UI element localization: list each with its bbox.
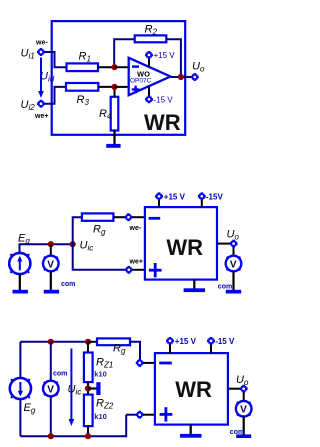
svg-text:WR: WR [166,235,203,260]
arrow U_ic (bottom) [69,349,75,427]
pin -15 V (bottom) [210,344,212,353]
pin +15 V (bottom) [169,344,171,353]
ground divider (rotated) [96,382,100,395]
terminal -15 V (middle) [198,192,206,200]
wire U_i1 to R1 [45,52,67,67]
wire R2 right to output node [166,39,181,77]
pin we+ to box (bottom) [143,414,155,416]
voltmeter V1 (bottom) [43,381,59,397]
node voltmeter tap (middle) [48,241,54,247]
svg-text:k10: k10 [94,370,107,379]
svg-text:we-: we- [129,225,142,232]
terminal U_o (top diagram) [191,73,199,81]
ground voltmeter (middle right) [226,290,241,294]
terminal we+ (bottom) [136,411,144,419]
terminal we+ (middle) [125,266,133,274]
pin R_Z2 bottom [87,426,89,436]
svg-text:OP07C: OP07C [130,77,152,84]
ground E_g (middle) [13,290,28,294]
box plus mark (bottom) [160,407,173,421]
source E_g (middle) [9,253,30,276]
pin R_Z1 top [87,342,89,353]
pin voltmeter top (bottom) [50,342,52,381]
svg-text:-15 V: -15 V [154,96,174,105]
op-amp plus mark [132,86,140,94]
terminal -15 V (bottom) [207,337,215,345]
node output [178,74,184,80]
svg-text:com: com [53,371,67,378]
wire op-amp output to U_o [170,76,191,78]
source E_g arrow up [17,256,22,270]
terminal U_o (middle) [230,240,238,248]
pin we- to box (middle) [132,216,145,218]
pin R_g left (bottom) [88,341,97,343]
wire E_g top rail [20,244,73,252]
op-amp U1 OP07C [129,58,171,95]
pin voltmeter bottom (bottom right) [243,417,245,436]
node U_ic (middle) [70,241,76,247]
wire U_i2 to R3 [45,87,66,104]
resistor R1 [67,63,99,71]
pin we- to box (bottom) [143,362,155,364]
wire R_g to we- terminal (bottom) [130,342,140,360]
source E_g (bottom) [10,378,31,401]
svg-text:+15 V: +15 V [164,193,186,202]
svg-text:+15 V: +15 V [175,337,197,346]
svg-text:com: com [61,281,75,288]
node divider mid [85,385,91,391]
svg-text:k10: k10 [94,412,107,421]
voltmeter V2 (middle right) [226,256,242,272]
pin -15 V (middle) [201,200,203,208]
pin +15 V (middle) [158,200,160,208]
box plus mark (middle) [149,263,162,277]
pin voltmeter bottom (middle right) [232,272,234,291]
terminal -15 V (top diagram) [145,95,153,103]
resistor R2 [135,35,167,42]
pin U_o (bottom) [228,388,241,390]
wire U_ic node down to we+ [73,244,125,270]
resistor R_g (bottom) [97,338,130,345]
node voltmeter bottom (bottom) [48,433,54,439]
pin R1 right to node A [98,66,115,68]
pin U_o (middle) [217,243,230,245]
resistor R_Z1 [84,353,93,383]
svg-text:we+: we+ [34,113,48,120]
amplifier box WR (bottom) [155,353,228,425]
box minus mark (middle) [149,217,161,220]
node A (inverting) [111,64,117,70]
resistor R4 [111,97,119,131]
wire top rail (bottom diagram) [20,341,88,343]
pin E_g bottom [19,275,21,291]
svg-text:-15V: -15V [206,193,224,202]
svg-text:we-: we- [35,40,48,47]
wire to we+ terminal (bottom) [126,414,136,416]
ground voltmeter (middle left) [44,290,59,294]
op-amp minus mark [132,65,139,67]
voltmeter V2 (bottom right) [236,401,252,417]
terminal we+ (U_i2 input) [37,100,45,108]
wire feedback R2 loop [114,39,135,67]
pin R3 right to node B [98,86,114,88]
pin R_Z1 bottom [87,382,89,395]
terminal +15 V (bottom) [166,337,174,345]
node voltmeter top (bottom) [48,339,54,345]
pin R4 bottom to ground [113,131,115,145]
ground box WR (middle) [193,280,195,289]
svg-text:+15 V: +15 V [154,51,176,60]
svg-text:-15 V: -15 V [215,337,235,346]
wire bottom rail (bottom diagram) [20,415,126,437]
pin divider mid to ground [88,387,97,389]
ground voltmeter (bottom right) [236,434,251,438]
svg-text:WR: WR [144,110,181,135]
terminal +15 V (middle) [155,192,163,200]
voltmeter V1 (middle left) [43,256,59,272]
pin op-amp non-inverting input [115,86,129,88]
arrow U_id [38,58,44,99]
svg-text:com: com [230,429,244,436]
wire left rail (bottom diagram) [19,342,21,378]
pin U_o to voltmeter (bottom) [243,392,245,401]
wire U_ic node up to R_g [73,217,82,244]
source E_g arrow down [18,382,23,397]
amplifier box WR (middle) [145,207,217,280]
ground (top diagram) [106,144,120,148]
terminal U_o (bottom) [240,385,248,393]
ground box WR (bottom) [190,425,192,435]
node R_Z2 bottom [85,433,91,439]
terminal we- (bottom) [136,359,144,367]
pin voltmeter bottom (middle left) [50,272,52,291]
pin R4 top [114,87,116,97]
pin we+ to box (middle) [133,269,145,271]
node R_Z1 top [85,339,91,345]
resistor R_Z2 [84,395,93,427]
terminal we- (middle) [125,213,133,221]
resistor R_g (middle) [82,213,114,220]
terminal +15 V (top diagram) [145,51,153,59]
pin V- supply [148,86,150,96]
svg-text:we+: we+ [129,259,143,266]
node B (non-inverting) [111,84,117,90]
pin V+ supply [148,59,150,68]
box minus mark (bottom) [159,362,172,365]
terminal we- (U_i1 input) [37,48,45,56]
svg-text:com: com [218,283,232,290]
pin R_g right to we- [113,216,125,218]
resistor R3 [66,83,98,91]
pin voltmeter top (middle left) [50,244,52,256]
pin op-amp inverting input [115,66,129,68]
enclosure box WR (top diagram) [52,21,186,135]
pin U_o to voltmeter (middle) [233,247,235,256]
svg-text:WR: WR [175,377,212,402]
pin voltmeter bottom (bottom) [50,397,52,437]
